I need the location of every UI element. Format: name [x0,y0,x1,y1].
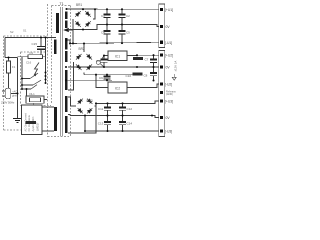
wire 0V rail row2 [68,66,159,68]
wire BR2 top vertex up [83,44,85,53]
svg-text:[-U2]: [-U2] [165,83,172,87]
svg-text:C4: C4 [101,31,105,35]
wire sec4 top to BR3 left vertex [68,97,76,106]
wire sec4 bottom [68,103,96,133]
module box with vertical text [22,105,54,135]
svg-text:BR1: BR1 [76,3,82,7]
svg-text:S2: S2 [10,30,14,34]
wires row2 [66,44,159,91]
wire -U1 rail [70,42,159,43]
svg-text:C16: C16 [26,61,32,65]
capacitor C11 [98,103,111,115]
wire primary tap y37.5 [5,37,56,39]
capacitor C10 (horizontal) [125,72,142,78]
wire plug to earth column [11,93,18,95]
earth column [17,58,19,119]
svg-text:0V: 0V [166,116,171,120]
wire BR2 bottom vertex down [83,73,85,75]
svg-text:0V: 0V [166,25,171,29]
transformer box right [70,6,72,137]
regulator IC2 [108,82,127,93]
junction dots row2 [65,42,155,81]
svg-text:±12V 1A: ±12V 1A [174,61,178,72]
svg-text:0V: 0V [166,66,171,70]
wire 0V rail row4 [70,116,159,118]
wire -U2 rail right of IC2 [127,84,159,88]
wire +U2 rail left of IC1 [100,56,104,62]
transformer box top [52,5,71,7]
svg-text:F1: F1 [12,65,16,69]
regulator IC1 [108,51,127,61]
terminal labels [165,8,173,134]
svg-text:C7: C7 [145,58,149,62]
earth ground [13,118,22,122]
primary tap arrow [63,28,69,32]
svg-text:D1: D1 [30,51,34,55]
switch feed columns [21,57,23,89]
svg-text:230V 50Hz: 230V 50Hz [1,101,15,105]
svg-text:[+U3]: [+U3] [165,100,173,104]
box D1 [28,55,43,59]
svg-text:T1: T1 [60,2,64,6]
mains enclosure bottom border [4,129,21,131]
svg-text:IC1: IC1 [115,54,120,58]
transformer secondary winding bars [65,12,68,134]
mains input section [5,38,56,119]
wires row4 [68,97,159,133]
svg-text:C9: C9 [99,76,103,80]
switch contact dots [8,37,47,95]
wire +U2 rail right of IC1 [127,54,159,56]
svg-text:BR3: BR3 [87,99,93,103]
wire +U3 rail [95,101,159,106]
wire +U1 rail [67,8,159,10]
transformer box bottom [48,136,71,138]
svg-text:DL1: DL1 [30,92,36,96]
chassis ground bar [26,121,37,124]
svg-text:C2: C2 [126,14,130,18]
terminal squares [160,8,163,133]
wire fuse top feed [5,57,18,59]
junction dots row4 [84,102,153,132]
bridge BR2 [75,53,94,72]
mains enclosure top border [4,35,48,37]
wire IC2 input drop [96,75,108,88]
capacitor C4 [101,25,111,44]
svg-text:LM317: LM317 [36,122,40,131]
wire BR2 left vertex to sec3 bottom [68,62,74,90]
wire BR1 left vertex down [72,19,74,43]
mains enclosure left border [3,36,5,130]
C16 line y58 [18,56,29,58]
svg-text:C14: C14 [127,121,133,125]
wire sec1 bottom / 0V feed [68,24,159,29]
capacitor C5 [119,24,131,43]
svg-text:C15: C15 [32,42,38,46]
svg-text:(GND): (GND) [166,93,173,96]
svg-text:C13: C13 [98,121,104,125]
switch S1 poles [22,73,41,89]
svg-text:[-U3]: [-U3] [165,130,172,134]
junction dots row1 [65,8,123,45]
capacitor C8 [144,67,158,81]
wires row1 [67,9,159,44]
capacitor C12 [119,103,132,115]
transformer box left [51,6,53,104]
small symbol above -U2 [172,74,176,80]
svg-text:C12: C12 [127,107,133,111]
switch box top border [21,51,48,53]
wire left drop to fuse line [4,38,6,58]
capacitor C2 [119,9,131,24]
mains plug [2,88,11,98]
svg-text:[+U2]: [+U2] [165,54,173,58]
capacitor C14 [119,116,132,132]
wire BR3 bottom vertex down [84,116,86,132]
bridge BR1 [74,10,92,28]
capacitor C6 [96,56,107,68]
svg-text:C1: C1 [101,14,105,18]
resistor R1 leads [8,58,10,62]
bridge BR3 [76,97,93,114]
wire -U2 feed line y73.5 [84,74,143,76]
lamp box DL1 [26,92,47,105]
switch box bottom border [21,105,52,107]
svg-text:[-U1]: [-U1] [165,41,172,45]
resistor R1 [7,61,11,73]
transformer primary winding bars [54,13,59,131]
svg-text:~AC: ~AC [12,90,17,94]
wire sec3 mid tap [66,79,112,81]
wire center tap to 0V rail [68,115,70,116]
enclosure dashed borders [4,4,71,137]
transformer T1 core [59,7,61,136]
capacitor C13 [98,116,111,132]
vertical border at x47.5 [47,4,49,137]
capacitor C7 (horizontal) [133,57,149,62]
switch box left border [20,52,22,106]
svg-text:C5: C5 [126,31,130,35]
capacitor C1 [101,9,111,24]
svg-text:giris: giris [12,94,17,98]
svg-text:IC2: IC2 [115,86,120,90]
svg-text:BR2: BR2 [79,47,85,51]
svg-text:S1: S1 [23,29,27,33]
svg-text:C8: C8 [144,74,148,78]
wire BR1 right vertex up [93,9,95,19]
selector column x46 [45,38,47,84]
wire -U3 rail [85,130,159,132]
wire sec2 top stub [68,40,71,44]
capacitor C9 [99,75,111,81]
surge arrow zigzag [34,63,39,76]
svg-text:C11: C11 [98,107,104,111]
svg-text:[+U1]: [+U1] [165,8,173,12]
svg-text:C6: C6 [96,59,100,63]
capacitor C15 [32,38,46,55]
svg-text:C10: C10 [125,74,131,78]
connector circle at BR2 output [96,60,100,64]
terminal strips right [159,4,165,137]
capacitor C3 [150,55,157,67]
